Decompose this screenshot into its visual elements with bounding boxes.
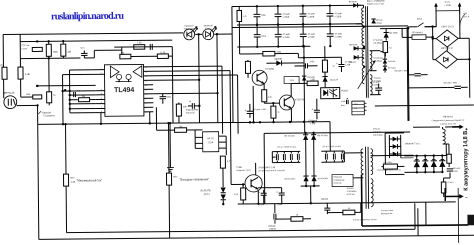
svg-text:1000 мкФ: 1000 мкФ bbox=[308, 119, 318, 122]
svg-text:d 0,9мм: d 0,9мм bbox=[374, 81, 382, 83]
svg-text:(подключ. Опт.): (подключ. Опт.) bbox=[236, 170, 250, 172]
svg-text:"Максимальный ток": "Максимальный ток" bbox=[77, 178, 102, 182]
svg-text:КВРС 35-10: КВРС 35-10 bbox=[442, 26, 455, 28]
svg-text:Обмотки: Обмотки bbox=[334, 177, 343, 179]
svg-text:(сердеч.2х42,7 мм): (сердеч.2х42,7 мм) bbox=[367, 3, 384, 5]
svg-text:(на рабочем теле 5 в тексте): (на рабочем теле 5 в тексте) bbox=[258, 170, 285, 172]
svg-text:"Перегрев": "Перегрев" bbox=[184, 28, 195, 30]
svg-text:(сет. А: (сет. А bbox=[463, 15, 470, 18]
svg-text:КР ТЛ: КР ТЛ bbox=[207, 137, 214, 140]
svg-text:1 виток 4 провода d 0,9 пм: 1 виток 4 провода d 0,9 пм bbox=[376, 169, 401, 171]
svg-text:ВУ 1(3к): ВУ 1(3к) bbox=[388, 67, 396, 69]
svg-text:1М: 1М bbox=[67, 51, 71, 54]
svg-text:"Выходное напряжение": "Выходное напряжение" bbox=[180, 177, 210, 181]
svg-text:~ 220В: ~ 220В bbox=[444, 5, 452, 7]
svg-text:+: + bbox=[311, 107, 313, 111]
svg-text:провод 4 пм: провод 4 пм bbox=[381, 213, 393, 215]
svg-text:ВВ ВСВТ: ВВ ВСВТ bbox=[349, 44, 358, 46]
svg-text:СВЧ: СВЧ bbox=[463, 13, 468, 15]
svg-text:ruslanlipin.narod.ru: ruslanlipin.narod.ru bbox=[51, 11, 125, 23]
svg-text:x 10В: x 10В bbox=[310, 123, 316, 125]
svg-text:ВСЛ197В: ВСЛ197В bbox=[201, 190, 211, 192]
svg-text:x 250В: x 250В bbox=[307, 16, 314, 18]
svg-text:МВ 4/4148х: МВ 4/4148х bbox=[284, 135, 295, 137]
svg-text:"Сеть": "Сеть" bbox=[205, 28, 212, 30]
svg-text:+: + bbox=[336, 62, 338, 66]
svg-text:КЛ-2: КЛ-2 bbox=[417, 19, 423, 21]
svg-text:2,2К: 2,2К bbox=[234, 194, 239, 196]
svg-text:x 250В: x 250В bbox=[282, 17, 289, 19]
svg-text:2к: 2к bbox=[332, 66, 334, 68]
svg-text:100мкФ: 100мкФ bbox=[268, 225, 276, 228]
svg-text:680 мкФ х 400В: 680 мкФ х 400В bbox=[444, 81, 458, 84]
svg-text:75К: 75К bbox=[179, 126, 184, 129]
svg-text:d 0,9 пм: d 0,9 пм bbox=[347, 194, 355, 196]
svg-text:10х (1Вт): 10х (1Вт) bbox=[383, 162, 392, 164]
svg-text:47 мкФ: 47 мкФ bbox=[335, 32, 343, 35]
svg-text:R6*: R6* bbox=[174, 176, 178, 179]
svg-text:4,3к: 4,3к bbox=[268, 97, 272, 99]
svg-text:3 витка слож.: 3 витка слож. bbox=[381, 210, 394, 212]
svg-text:4 провода: 4 провода bbox=[347, 191, 358, 193]
svg-text:d 0,25мм: d 0,25мм bbox=[373, 43, 382, 45]
svg-text:2х4148х: 2х4148х bbox=[388, 61, 396, 63]
svg-text:10 мкФ: 10 мкФ bbox=[345, 60, 352, 63]
svg-text:1,2К: 1,2К bbox=[71, 181, 76, 184]
svg-text:ЕЛ12А:: ЕЛ12А: bbox=[373, 128, 381, 131]
svg-text:1СФ: 1СФ bbox=[208, 141, 213, 144]
svg-text:100к: 100к bbox=[26, 94, 31, 96]
svg-text:1н: 1н bbox=[189, 101, 191, 103]
svg-text:17 витков: 17 витков bbox=[373, 40, 383, 42]
svg-text:к щитку 35 кв. мм: к щитку 35 кв. мм bbox=[440, 123, 457, 125]
svg-text:100н: 100н bbox=[261, 36, 267, 38]
svg-text:СТР так: СТР так bbox=[21, 45, 29, 47]
svg-text:100мкФ: 100мкФ bbox=[321, 198, 329, 201]
svg-text:100н: 100н bbox=[261, 15, 267, 17]
svg-text:x 250В: x 250В bbox=[308, 37, 315, 39]
svg-text:ВЕРП1,25: ВЕРП1,25 bbox=[3, 92, 15, 95]
svg-text:ВВ ВСВТ: ВВ ВСВТ bbox=[349, 1, 358, 3]
svg-text:x 250В: x 250В bbox=[334, 16, 341, 18]
svg-text:(10 в х 4208 х3 шт.): (10 в х 4208 х3 шт.) bbox=[322, 146, 341, 148]
svg-text:7,5К: 7,5К bbox=[137, 41, 142, 44]
svg-text:2х6 Зх8: 2х6 Зх8 bbox=[373, 132, 381, 134]
svg-text:1,5н: 1,5н bbox=[77, 90, 81, 92]
svg-text:КД408Г: КД408Г bbox=[274, 59, 283, 61]
svg-text:х 25В: х 25В bbox=[452, 171, 458, 173]
svg-text:2Н6083ИРС 14В: 2Н6083ИРС 14В bbox=[258, 167, 275, 169]
svg-text:TL494: TL494 bbox=[114, 87, 134, 94]
svg-text:SP (пред.): SP (пред.) bbox=[412, 32, 423, 34]
svg-text:6,7К: 6,7К bbox=[160, 51, 165, 54]
svg-text:3 витка сложенного 4/3 пм: 3 витка сложенного 4/3 пм bbox=[353, 219, 377, 221]
svg-text:10 витков: 10 витков bbox=[373, 58, 383, 60]
svg-text:стаб.: стаб. bbox=[341, 101, 346, 103]
svg-text:d 0,9 пм: d 0,9 пм bbox=[334, 183, 342, 185]
svg-text:сложенные: сложенные bbox=[334, 180, 346, 182]
svg-text:680 мкФ х 400В: 680 мкФ х 400В bbox=[395, 69, 409, 72]
svg-text:Красный: Красный bbox=[185, 24, 195, 27]
svg-text:З сль: З сль bbox=[445, 1, 451, 3]
svg-text:КТ315Б: КТ315Б bbox=[265, 68, 274, 71]
svg-text:1,7к: 1,7к bbox=[242, 16, 246, 18]
svg-text:680 мкФ: 680 мкФ bbox=[452, 167, 460, 170]
svg-text:x 250В: x 250В bbox=[283, 37, 290, 39]
svg-text:3 витка: 3 витка bbox=[347, 188, 355, 190]
svg-text:Зелёный: Зелёный bbox=[204, 24, 214, 27]
svg-text:PC817: PC817 bbox=[341, 90, 349, 92]
svg-text:10К: 10К bbox=[183, 106, 188, 108]
svg-text:1к: 1к bbox=[277, 112, 279, 114]
svg-text:+: + bbox=[244, 108, 246, 112]
svg-text:ПВ-06-01: ПВ-06-01 bbox=[443, 116, 454, 118]
svg-text:t 37 В: t 37 В bbox=[21, 48, 27, 51]
svg-text:ТЗ средняя: ТЗ средняя bbox=[43, 115, 55, 117]
svg-text:1000 В: 1000 В bbox=[269, 229, 276, 231]
svg-text:1,8К: 1,8К bbox=[310, 79, 315, 81]
svg-text:КТ3107Б: КТ3107Б bbox=[295, 98, 305, 101]
svg-text:х 400В: х 400В bbox=[373, 84, 380, 86]
svg-text:680п: 680п bbox=[166, 97, 172, 99]
svg-text:вых.: вых. bbox=[341, 105, 346, 107]
svg-text:47 мкФ: 47 мкФ bbox=[308, 33, 316, 36]
svg-text:0,3-0,2мм: 0,3-0,2мм bbox=[373, 135, 383, 137]
svg-text:47 мкФ: 47 мкФ bbox=[283, 33, 291, 36]
svg-text:Терморез: Терморез bbox=[41, 112, 51, 114]
svg-text:2Н6387А (7 шт.): 2Н6387А (7 шт.) bbox=[405, 142, 420, 145]
svg-text:100п: 100п bbox=[309, 61, 315, 63]
svg-text:(3 шт.): (3 шт.) bbox=[448, 182, 454, 184]
svg-text:+: + bbox=[258, 190, 260, 194]
svg-text:Самодельного с ремонтных Бруне: Самодельного с ремонтных Бруней "Ф" bbox=[432, 119, 465, 122]
svg-text:(Опт.): (Опт.) bbox=[204, 194, 210, 196]
svg-text:x 250В: x 250В bbox=[335, 36, 342, 38]
svg-text:(70 в х 4208 х5 шт.): (70 в х 4208 х5 шт.) bbox=[277, 146, 296, 148]
svg-text:х 25В: х 25В bbox=[345, 64, 351, 66]
svg-text:3 витка: 3 витка bbox=[374, 78, 382, 80]
svg-text:частоты: частоты bbox=[186, 112, 195, 114]
svg-text:МВ 4/4148х: МВ 4/4148х bbox=[285, 178, 296, 180]
svg-text:R5*: R5* bbox=[71, 177, 75, 180]
svg-text:КД 105Б: КД 105Б bbox=[389, 32, 398, 34]
svg-text:подстройка: подстройка bbox=[186, 108, 199, 111]
svg-text:1к: 1к bbox=[348, 208, 350, 210]
svg-text:47 мкФ: 47 мкФ bbox=[307, 12, 315, 15]
svg-text:10к: 10к bbox=[82, 96, 85, 98]
svg-text:80К: 80К bbox=[53, 51, 58, 54]
svg-text:МВ 4/4148х: МВ 4/4148х bbox=[317, 135, 328, 137]
svg-text:47 мкФ: 47 мкФ bbox=[334, 12, 342, 15]
svg-text:К аккумулятору 14,8 В: К аккумулятору 14,8 В bbox=[463, 130, 470, 191]
svg-text:МВ 4/4148х: МВ 4/4148х bbox=[318, 178, 329, 180]
svg-text:ГУФБ: ГУФБ bbox=[236, 166, 242, 169]
svg-text:+: + bbox=[276, 190, 278, 194]
svg-text:100 мкФ х 16В: 100 мкФ х 16В bbox=[252, 108, 266, 111]
svg-text:1,4К: 1,4К bbox=[25, 73, 31, 76]
svg-text:КС147А: КС147А bbox=[330, 79, 339, 82]
svg-text:47 мкФ: 47 мкФ bbox=[282, 13, 290, 16]
